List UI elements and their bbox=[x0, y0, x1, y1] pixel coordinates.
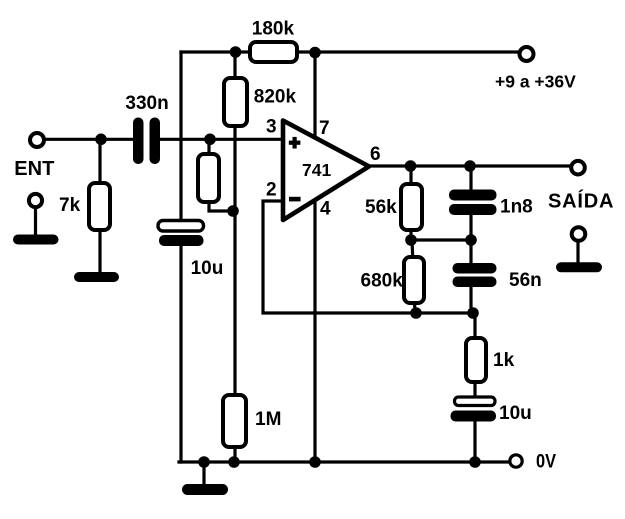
svg-text:0V: 0V bbox=[536, 452, 556, 473]
svg-text:10u: 10u bbox=[499, 403, 532, 424]
svg-text:680k: 680k bbox=[361, 271, 404, 292]
svg-text:4: 4 bbox=[320, 199, 331, 220]
svg-text:+9 a +36V: +9 a +36V bbox=[495, 71, 576, 91]
svg-text:2: 2 bbox=[266, 179, 277, 200]
svg-text:3: 3 bbox=[266, 117, 277, 138]
svg-text:10u: 10u bbox=[191, 258, 224, 279]
svg-text:820k: 820k bbox=[254, 87, 297, 108]
svg-text:7: 7 bbox=[319, 118, 330, 139]
svg-text:ENT: ENT bbox=[14, 158, 54, 180]
svg-text:56n: 56n bbox=[509, 270, 542, 291]
svg-text:180k: 180k bbox=[252, 18, 295, 39]
svg-text:1k: 1k bbox=[493, 350, 515, 371]
svg-text:330n: 330n bbox=[125, 93, 168, 114]
svg-text:1n8: 1n8 bbox=[500, 197, 533, 218]
svg-text:7k: 7k bbox=[59, 195, 81, 216]
svg-text:SAÍDA: SAÍDA bbox=[548, 189, 614, 212]
svg-text:56k: 56k bbox=[365, 197, 397, 218]
svg-text:1M: 1M bbox=[255, 409, 281, 430]
svg-text:6: 6 bbox=[370, 144, 381, 165]
svg-text:741: 741 bbox=[302, 160, 331, 180]
